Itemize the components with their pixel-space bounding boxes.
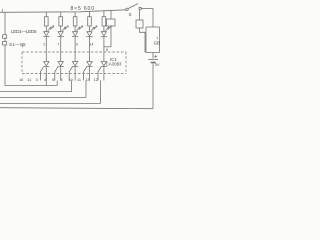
svg-text:4: 4 bbox=[44, 78, 46, 82]
svg-text:CA3083: CA3083 bbox=[106, 62, 122, 67]
wire bus D bbox=[0, 103, 100, 105]
resistor R1 bbox=[45, 12, 49, 29]
wire R6 to pin6 node bbox=[104, 46, 111, 48]
battery cell E bbox=[148, 55, 158, 63]
wire right rail upper bbox=[152, 9, 154, 28]
LED D5 bbox=[101, 26, 112, 52]
node terminal upper bbox=[3, 35, 7, 38]
SCR Q5 bbox=[98, 52, 107, 74]
LED D2 bbox=[58, 26, 69, 52]
LED D4 bbox=[86, 26, 97, 52]
svg-text:7: 7 bbox=[57, 43, 59, 47]
switch S bbox=[124, 4, 141, 11]
svg-text:12: 12 bbox=[94, 78, 98, 82]
wire bus A bbox=[5, 85, 57, 87]
wire bus C bbox=[0, 97, 86, 99]
LED D3 bbox=[72, 26, 83, 52]
svg-text:11: 11 bbox=[77, 78, 81, 82]
IC1 dashed box bbox=[22, 52, 126, 74]
wire bottom rail bbox=[0, 108, 153, 109]
wire bus B bbox=[0, 91, 72, 93]
svg-text:3: 3 bbox=[36, 78, 38, 82]
wire switch to right rail bbox=[141, 8, 153, 10]
resistor R5 bbox=[102, 11, 106, 29]
svg-text:LED1—LED5: LED1—LED5 bbox=[11, 29, 37, 34]
SCR Q2 bbox=[55, 52, 64, 74]
resistor R6 bbox=[107, 11, 116, 47]
svg-text:6: 6 bbox=[106, 48, 108, 52]
svg-text:10: 10 bbox=[69, 78, 73, 82]
svg-text:16: 16 bbox=[19, 78, 23, 82]
SCR Q3 bbox=[69, 52, 78, 74]
node terminal lower bbox=[3, 42, 7, 45]
svg-text:14: 14 bbox=[90, 43, 94, 47]
resistor R3 bbox=[73, 12, 77, 29]
resistor R7 on switch branch bbox=[136, 10, 145, 53]
wire rail below box bbox=[152, 53, 154, 59]
wire right rail lower bbox=[152, 63, 154, 108]
LED D1 bbox=[43, 26, 54, 52]
resistor R4 bbox=[88, 11, 92, 29]
wire top rail bbox=[0, 10, 126, 13]
resistor R2 bbox=[59, 12, 63, 29]
svg-text:2: 2 bbox=[43, 43, 45, 47]
svg-text:S: S bbox=[129, 12, 132, 17]
node tick top-left bbox=[2, 9, 4, 12]
svg-text:3V: 3V bbox=[155, 62, 160, 67]
svg-text:GB: GB bbox=[154, 40, 160, 45]
svg-text:9: 9 bbox=[76, 43, 78, 47]
battery box GB bbox=[146, 27, 160, 53]
svg-text:1: 1 bbox=[22, 44, 24, 48]
svg-text:13: 13 bbox=[85, 78, 89, 82]
SCR Q4 bbox=[84, 52, 93, 74]
svg-text:8×5 600: 8×5 600 bbox=[71, 6, 95, 12]
svg-text:6: 6 bbox=[52, 78, 54, 82]
svg-text:8: 8 bbox=[60, 78, 62, 82]
svg-text:1: 1 bbox=[156, 36, 158, 40]
svg-text:11: 11 bbox=[27, 78, 31, 82]
wire pin stubs to buses bbox=[40, 74, 98, 81]
SCR Q1 bbox=[40, 52, 49, 74]
wire left rail bbox=[4, 12, 6, 85]
